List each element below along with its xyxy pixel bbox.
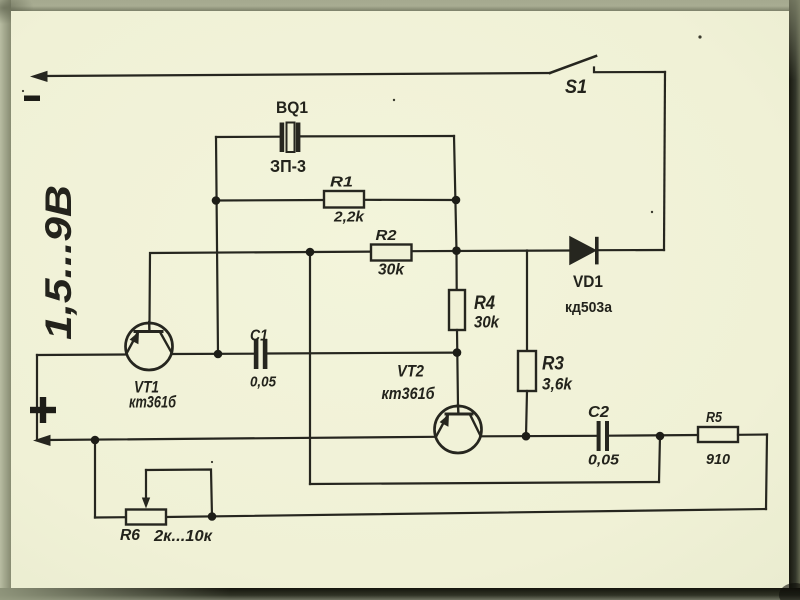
wire row D left — [150, 252, 372, 323]
label R1 value — [333, 209, 366, 226]
transistor VT2 — [435, 405, 482, 453]
wire row D right — [599, 249, 664, 251]
junction plus rail — [91, 436, 100, 445]
wire BQ1 loop left vertical — [216, 137, 218, 354]
label C2 value — [588, 452, 620, 469]
junction R6 right — [208, 512, 217, 521]
wire R3 vertical top — [526, 251, 528, 352]
node minus arrow — [30, 71, 48, 82]
junction R3 bottom — [522, 432, 531, 441]
label R3 value — [542, 376, 573, 394]
svg-text:R6: R6 — [120, 527, 140, 544]
svg-text:2,2k: 2,2k — [333, 209, 366, 226]
label R6 — [120, 527, 140, 544]
label R4 — [474, 293, 495, 314]
wire feedback vertical left — [309, 252, 311, 484]
svg-text:R2: R2 — [376, 227, 398, 244]
label S1 — [565, 77, 587, 98]
wire switch right — [594, 68, 665, 73]
wire bottom rail left — [95, 516, 126, 518]
capacitor C1 — [254, 339, 268, 369]
wire left bottom vertical — [94, 440, 96, 518]
svg-text:VD1: VD1 — [573, 272, 603, 291]
label R5 value — [706, 451, 731, 468]
junction row D feedback — [306, 248, 315, 257]
wire VT2 emitter row — [481, 435, 597, 438]
label R4 value — [474, 314, 500, 332]
svg-text:C2: C2 — [588, 404, 609, 421]
wire R3 vertical bottom — [526, 391, 527, 436]
junction R1 right — [452, 196, 461, 205]
svg-text:кд503а: кд503а — [565, 299, 613, 316]
junction R1 left — [212, 196, 221, 205]
wire main vertical x457 upper — [454, 136, 457, 290]
wire row E right — [267, 352, 456, 355]
svg-text:30k: 30k — [474, 314, 500, 332]
label C2 — [588, 404, 609, 421]
label C1 — [250, 328, 268, 345]
resistor R4 — [449, 290, 465, 330]
svg-text:R1: R1 — [330, 174, 353, 191]
svg-text:0,05: 0,05 — [588, 452, 620, 469]
potentiometer R6 wiper arrow — [142, 470, 150, 509]
wire feedback vertical right — [659, 436, 660, 482]
svg-text:3,6k: 3,6k — [542, 376, 573, 394]
junction row E R4 — [453, 348, 462, 357]
resistor R2 — [371, 245, 412, 261]
svg-text:2к...10к: 2к...10к — [153, 528, 213, 545]
svg-text:ЗП-3: ЗП-3 — [270, 156, 306, 176]
junction row D R4 — [452, 246, 461, 255]
wire feedback bottom — [310, 482, 659, 484]
label R5 — [706, 409, 723, 426]
label ZP-3 — [270, 156, 306, 176]
label supply voltage 1,5...9B — [38, 185, 79, 340]
wire R5 down vertical — [766, 435, 767, 510]
svg-text:C1: C1 — [250, 328, 268, 345]
paper specks — [22, 35, 702, 463]
wire main vertical x457 lower — [457, 330, 458, 406]
junction C2 R5 — [656, 432, 665, 441]
label VT2 type — [382, 385, 436, 403]
wire plus rail — [47, 437, 434, 440]
svg-text:S1: S1 — [565, 77, 587, 98]
wire R5 right — [738, 433, 767, 435]
svg-text:30k: 30k — [378, 262, 405, 279]
transistor VT1 — [126, 322, 173, 370]
wire row E left — [37, 353, 126, 356]
plus terminal symbol — [30, 397, 56, 423]
label R3 — [542, 354, 564, 375]
svg-text:VT2: VT2 — [397, 362, 424, 381]
svg-text:R5: R5 — [706, 409, 723, 426]
svg-text:кт361б: кт361б — [382, 385, 436, 403]
piezo BQ1 — [280, 123, 301, 153]
label R2 value — [378, 262, 405, 279]
svg-text:1,5...9В: 1,5...9В — [38, 185, 79, 340]
wire BQ1 loop top right — [300, 135, 454, 138]
junction row E C1 — [214, 350, 223, 359]
resistor R3 — [518, 351, 536, 391]
label VT1 — [134, 379, 159, 397]
minus terminal symbol — [24, 96, 40, 102]
wire bottom rail — [166, 509, 766, 517]
wire row E mid — [173, 353, 255, 355]
wire minus rail — [44, 73, 550, 76]
wire BQ1 loop top left — [216, 136, 280, 139]
label R1 — [330, 174, 353, 191]
wire R1 row left — [216, 199, 324, 202]
node plus arrow — [33, 435, 51, 446]
label VT1 type — [129, 394, 177, 412]
resistor R5 — [698, 427, 738, 442]
label R2 — [376, 227, 398, 244]
wire left vertical emitter VT1 — [36, 355, 38, 440]
svg-text:кт361б: кт361б — [129, 394, 177, 412]
label BQ1 — [276, 98, 308, 117]
svg-text:R4: R4 — [474, 293, 495, 314]
label VD1 — [573, 272, 603, 291]
svg-text:BQ1: BQ1 — [276, 98, 308, 117]
wire R1 row right — [364, 199, 456, 201]
wire right vertical — [664, 72, 665, 250]
label C1 value — [250, 374, 276, 391]
label VT2 — [397, 362, 424, 381]
wire R6 wiper bracket — [146, 470, 212, 517]
svg-text:R3: R3 — [542, 354, 564, 375]
switch S1 blade — [550, 56, 596, 73]
resistor R1 — [324, 191, 364, 208]
label VD1 value — [565, 299, 613, 316]
wire C2 to R5 — [609, 434, 698, 437]
diode VD1 — [570, 237, 599, 265]
wire row D middle — [411, 249, 571, 252]
svg-text:0,05: 0,05 — [250, 374, 276, 391]
resistor R6 — [126, 510, 166, 525]
label R6 value — [153, 528, 213, 545]
capacitor C2 — [597, 421, 609, 451]
svg-text:910: 910 — [706, 451, 731, 468]
